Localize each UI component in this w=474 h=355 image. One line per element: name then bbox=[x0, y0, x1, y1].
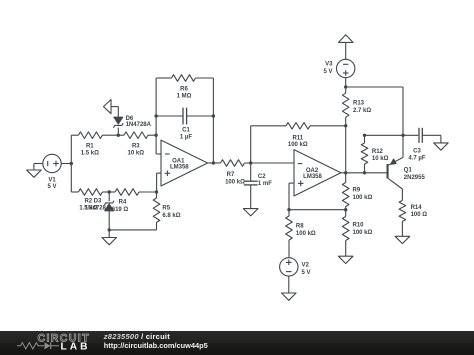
svg-text:100 kΩ: 100 kΩ bbox=[353, 230, 373, 236]
node junction bbox=[154, 134, 157, 137]
wire bbox=[345, 207, 347, 210]
ground bbox=[282, 293, 297, 300]
capacitor C1 bbox=[156, 108, 213, 141]
op-amp OA2 bbox=[294, 150, 341, 196]
svg-text:1N4728A: 1N4728A bbox=[126, 122, 152, 128]
svg-text:R8: R8 bbox=[296, 223, 304, 229]
svg-text:C2: C2 bbox=[258, 174, 266, 180]
resistor R8 bbox=[286, 210, 316, 240]
resistor R13 bbox=[342, 93, 371, 117]
svg-text:R14: R14 bbox=[411, 205, 423, 211]
wire bbox=[156, 78, 161, 154]
wire bbox=[289, 183, 294, 210]
node junction bbox=[108, 228, 111, 231]
wire bbox=[345, 241, 347, 257]
resistor R12 bbox=[361, 135, 388, 173]
svg-text:1N4728A: 1N4728A bbox=[85, 205, 111, 211]
node junction bbox=[344, 85, 347, 88]
CircuitLab logo bbox=[17, 332, 90, 352]
wire bbox=[61, 163, 71, 165]
node junction bbox=[363, 171, 366, 174]
wire bbox=[196, 78, 214, 163]
wire bbox=[251, 126, 286, 163]
resistor R9 bbox=[342, 173, 372, 207]
svg-text:http://circuitlab.com/cuw44p5: http://circuitlab.com/cuw44p5 bbox=[104, 341, 208, 350]
wire bbox=[70, 135, 72, 192]
node junction bbox=[363, 134, 366, 137]
svg-text:R2: R2 bbox=[84, 198, 92, 204]
capacitor C3 bbox=[408, 128, 440, 162]
resistor R14 bbox=[399, 200, 427, 221]
node junction bbox=[401, 134, 404, 137]
svg-text:C3: C3 bbox=[413, 149, 421, 155]
op-amp OA1 bbox=[161, 140, 208, 186]
wire bbox=[245, 162, 295, 164]
svg-text:10 kΩ: 10 kΩ bbox=[128, 151, 145, 157]
svg-text:C1: C1 bbox=[182, 128, 190, 134]
svg-text:4.7 µF: 4.7 µF bbox=[408, 156, 425, 162]
node junction bbox=[287, 208, 290, 211]
svg-text:LAB: LAB bbox=[61, 341, 91, 352]
ground bbox=[434, 143, 449, 150]
ground bbox=[338, 256, 353, 263]
svg-text:OA1: OA1 bbox=[172, 158, 185, 164]
footer text bbox=[103, 332, 208, 350]
svg-text:1 mF: 1 mF bbox=[258, 181, 272, 187]
svg-text:100 kΩ: 100 kΩ bbox=[288, 142, 308, 148]
svg-text:5 V: 5 V bbox=[302, 270, 311, 276]
wire bbox=[365, 134, 419, 136]
ground bbox=[27, 164, 43, 178]
svg-text:2.7 kΩ: 2.7 kΩ bbox=[353, 108, 371, 114]
voltage source V3 bbox=[323, 59, 354, 77]
wire bbox=[345, 126, 347, 173]
node junction bbox=[344, 124, 347, 127]
svg-text:2N2955: 2N2955 bbox=[404, 175, 426, 181]
svg-text:1.5 kΩ: 1.5 kΩ bbox=[81, 151, 99, 157]
svg-text:R12: R12 bbox=[372, 149, 384, 155]
svg-text:1 µF: 1 µF bbox=[180, 134, 192, 140]
resistor R4 bbox=[112, 189, 139, 213]
svg-text:100 kΩ: 100 kΩ bbox=[296, 231, 316, 237]
resistor R7 bbox=[221, 160, 246, 186]
svg-text:100 kΩ: 100 kΩ bbox=[353, 195, 373, 201]
wire bbox=[208, 162, 221, 164]
svg-text:R10: R10 bbox=[353, 222, 365, 228]
wire bbox=[288, 276, 290, 293]
ground bbox=[395, 236, 410, 243]
voltage source V1 bbox=[43, 154, 61, 190]
wire bbox=[71, 134, 78, 136]
svg-text:R1: R1 bbox=[86, 144, 94, 150]
node junction bbox=[108, 190, 111, 193]
ground bbox=[104, 100, 119, 114]
wire bbox=[139, 191, 157, 193]
svg-text:R4: R4 bbox=[119, 200, 127, 206]
node junction bbox=[70, 162, 73, 165]
svg-text:R9: R9 bbox=[353, 188, 361, 194]
svg-text:6.8 kΩ: 6.8 kΩ bbox=[162, 213, 180, 219]
svg-text:LM358: LM358 bbox=[170, 164, 189, 170]
voltage source V2 bbox=[280, 258, 311, 276]
svg-text:100 kΩ: 100 kΩ bbox=[225, 179, 245, 185]
svg-text:10 kΩ: 10 kΩ bbox=[372, 156, 389, 162]
svg-text:Q1: Q1 bbox=[404, 168, 413, 174]
wire bbox=[310, 125, 346, 127]
capacitor C2 bbox=[244, 163, 272, 209]
resistor R2 bbox=[78, 189, 102, 212]
zener diode D3 bbox=[85, 192, 114, 230]
svg-text:V2: V2 bbox=[302, 263, 310, 269]
wire bbox=[148, 134, 156, 136]
svg-text:R6: R6 bbox=[180, 86, 188, 92]
resistor R1 bbox=[78, 132, 102, 157]
node junction bbox=[117, 134, 120, 137]
wire bbox=[346, 87, 403, 135]
svg-text:LM358: LM358 bbox=[303, 174, 322, 180]
wire bbox=[102, 191, 115, 193]
node junction bbox=[155, 190, 158, 193]
wire bbox=[289, 209, 346, 211]
wire bbox=[401, 221, 403, 236]
svg-text:V3: V3 bbox=[325, 62, 333, 68]
svg-text:z8235500 / circuit: z8235500 / circuit bbox=[103, 332, 170, 341]
resistor R11 bbox=[286, 123, 310, 149]
wire bbox=[288, 240, 290, 258]
node junction bbox=[344, 208, 347, 211]
wire bbox=[109, 222, 156, 230]
svg-text:R3: R3 bbox=[132, 144, 140, 150]
svg-text:619 Ω: 619 Ω bbox=[112, 207, 129, 213]
svg-text:OA2: OA2 bbox=[306, 168, 319, 174]
wire bbox=[157, 173, 161, 192]
wire bbox=[71, 191, 78, 193]
wire bbox=[345, 117, 347, 126]
footer bar bbox=[0, 331, 474, 355]
svg-text:R11: R11 bbox=[292, 136, 303, 142]
wire bbox=[156, 77, 171, 79]
zener diode D6 bbox=[114, 107, 152, 136]
svg-text:5 V: 5 V bbox=[47, 184, 56, 190]
resistor R3 bbox=[124, 132, 148, 157]
svg-text:1 MΩ: 1 MΩ bbox=[177, 93, 192, 99]
ground bbox=[339, 35, 354, 60]
wire bbox=[401, 189, 403, 200]
resistor R5 bbox=[153, 192, 181, 222]
node junction bbox=[344, 171, 347, 174]
wire bbox=[345, 78, 347, 94]
svg-text:R7: R7 bbox=[227, 172, 235, 178]
wire bbox=[341, 172, 387, 174]
node junction bbox=[212, 114, 215, 117]
svg-text:R5: R5 bbox=[162, 205, 170, 211]
ground bbox=[243, 209, 258, 216]
wire bbox=[102, 134, 124, 136]
svg-text:V1: V1 bbox=[48, 178, 56, 184]
svg-text:100 Ω: 100 Ω bbox=[411, 212, 428, 218]
ground bbox=[102, 230, 117, 245]
node junction bbox=[249, 161, 252, 164]
svg-text:5 V: 5 V bbox=[323, 69, 332, 75]
resistor R6 bbox=[172, 75, 196, 100]
node junction bbox=[212, 161, 215, 164]
node junction bbox=[154, 114, 157, 117]
svg-text:R13: R13 bbox=[353, 100, 365, 106]
svg-text:D3: D3 bbox=[94, 198, 102, 204]
transistor Q1 bbox=[387, 135, 426, 189]
resistor R10 bbox=[342, 210, 372, 241]
